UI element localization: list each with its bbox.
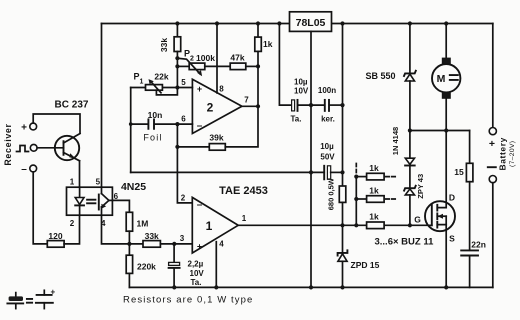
- svg-text:S: S: [449, 234, 455, 244]
- wire: 33k to op-amp1 pin 3: [160, 243, 192, 245]
- svg-text:2,2µ: 2,2µ: [188, 260, 204, 269]
- pin 6 label: [114, 192, 119, 201]
- pin 2 label op-amp1: [181, 194, 186, 203]
- wire: motor bottom row to 15 ohm branch: [410, 130, 470, 132]
- svg-text:TAE 2453: TAE 2453: [219, 185, 268, 197]
- wire: top supply rail right of regulator to battery plus: [332, 23, 493, 25]
- svg-text:(7–20V): (7–20V): [509, 141, 516, 167]
- legend: polarized capacitor symbol right: [36, 288, 56, 309]
- svg-text:22n: 22n: [471, 240, 486, 250]
- wire: junction down to 220k: [128, 244, 130, 255]
- node: gate bus / 1k first junction: [354, 175, 358, 179]
- node: feedback column / 39k junction: [175, 145, 179, 149]
- optocoupler light arrows: [87, 200, 95, 204]
- resistor R13 15: [454, 131, 473, 251]
- op-amp U1b (2): [192, 79, 242, 133]
- node: ground rail / 2.2u junction: [172, 285, 176, 289]
- resistor R11 1k gate second: [356, 185, 395, 202]
- svg-text:–: –: [21, 164, 27, 175]
- wire: motor to MOSFET drain: [437, 131, 446, 208]
- op-amp U1a (1) TAE 2453: [192, 185, 268, 253]
- terminal: battery plus: [489, 128, 496, 150]
- svg-text:SB 550: SB 550: [366, 71, 396, 81]
- wire: 1M bottom to junction: [128, 231, 130, 244]
- capacitor C6 22n: [461, 240, 486, 288]
- svg-text:1k: 1k: [369, 163, 379, 173]
- resistor R4 33k horizontal: [143, 231, 160, 247]
- resistor R8 1k vertical: [255, 24, 273, 52]
- terminal: receiver pulse input: [17, 144, 38, 151]
- wire: P1 left column down to foil row: [130, 88, 132, 173]
- pin label D: [449, 193, 455, 203]
- svg-text:Battery: Battery: [498, 137, 508, 171]
- svg-text:2: 2: [181, 194, 186, 203]
- svg-text:2: 2: [207, 100, 214, 114]
- svg-text:7: 7: [244, 96, 249, 105]
- svg-text:ZPD 15: ZPD 15: [351, 260, 380, 270]
- optocoupler U3 4N25 body: [67, 187, 113, 215]
- svg-text:1k: 1k: [369, 212, 379, 222]
- motor M1: [432, 24, 460, 131]
- wire: battery minus down to ground rail: [492, 183, 494, 288]
- svg-text:+: +: [51, 288, 56, 297]
- note: resistor wattage: [123, 295, 253, 306]
- wire: 10n to op-amp2 pin 6: [155, 123, 193, 125]
- wire: battery plus column from rail down: [342, 24, 344, 173]
- resistor R2 1M: [126, 212, 148, 231]
- pin 5 label: [96, 178, 101, 187]
- wire: pulse terminal to transistor base: [37, 147, 63, 149]
- svg-text:8: 8: [219, 85, 224, 94]
- pin 4 label op-amp1: [219, 240, 224, 249]
- node: SB550 / motor-bottom wire junction: [408, 128, 412, 132]
- potentiometer P2 100k: [177, 49, 215, 77]
- node: motor / bottom row junction: [444, 128, 448, 132]
- resistor R6 33k vertical: [159, 24, 181, 53]
- wire: 120 resistor to optocoupler pin 2: [64, 215, 79, 244]
- svg-text:10V: 10V: [294, 87, 309, 96]
- node: ground rail / source junction: [444, 285, 448, 289]
- wire: regulator ground pin down to ground rail: [310, 31, 312, 287]
- svg-text:2: 2: [190, 56, 194, 63]
- svg-text:10µ: 10µ: [294, 78, 308, 87]
- svg-text:–: –: [197, 200, 203, 211]
- legend: equivalence sign: [27, 299, 32, 303]
- svg-text:680 0,5W: 680 0,5W: [327, 177, 336, 210]
- svg-text:5: 5: [96, 178, 101, 187]
- node: wiper link junction: [175, 56, 179, 60]
- node: 47k / 1k junction: [256, 64, 260, 68]
- pin 1 label: [70, 178, 75, 187]
- wire: 1k down to output node: [257, 51, 259, 106]
- wire: feedback column pin6 to 39k and op-amp1 pin2: [177, 124, 192, 203]
- legend: electrolytic capacitor symbol left: [7, 293, 23, 309]
- wire: P2 to 47k: [205, 65, 230, 67]
- svg-text:Ta.: Ta.: [291, 115, 302, 124]
- svg-text:1: 1: [206, 219, 213, 233]
- svg-text:1: 1: [242, 214, 247, 223]
- wire: op-amp1 output to gate resistor: [238, 224, 366, 226]
- terminal: receiver plus: [21, 122, 37, 133]
- node: ground rail / regulator ground junction: [309, 285, 313, 289]
- node: output / feedback junction: [256, 104, 260, 108]
- svg-text:3...6× BUZ 11: 3...6× BUZ 11: [375, 237, 435, 248]
- node: 680 / gate wire junction: [340, 223, 344, 227]
- svg-text:39k: 39k: [209, 132, 223, 142]
- node: rail / 100n junction: [340, 21, 344, 25]
- potentiometer P1 22k: [131, 72, 178, 95]
- pin 5 label op-amp2: [181, 78, 186, 87]
- wire: gate bus dashed continuation: [355, 164, 357, 173]
- resistor R10 1k gate first: [356, 163, 395, 180]
- svg-text:G: G: [414, 215, 421, 225]
- svg-text:1: 1: [70, 178, 75, 187]
- node: pin6 / feedback column junction: [175, 122, 179, 126]
- wire: op-amp2 output pin 7: [242, 105, 258, 107]
- pin 3 label: [180, 234, 185, 243]
- optocoupler LED: [75, 187, 84, 215]
- capacitor C1 2.2u tantalum: [169, 244, 205, 288]
- terminal: receiver minus: [21, 164, 36, 175]
- svg-text:M: M: [437, 73, 446, 85]
- node: P2 row junction: [175, 64, 179, 68]
- MOSFET Q2 BUZ11: [425, 201, 455, 231]
- wire: optocoupler pin 6 to 1M resistor: [112, 200, 129, 212]
- wire: op-amp1 pin 4 to ground rail: [215, 242, 217, 288]
- svg-text:+: +: [197, 241, 202, 251]
- resistor R7 47k: [230, 53, 246, 70]
- svg-text:BC 237: BC 237: [55, 100, 89, 111]
- pin label G: [414, 215, 421, 225]
- svg-text:10V: 10V: [190, 269, 205, 278]
- voltage regulator U2 78L05: [290, 12, 332, 32]
- capacitor C5 10u 50V electrolytic: [320, 142, 342, 179]
- node: battery column / foil row / 680 junction: [340, 170, 344, 174]
- svg-text:100n: 100n: [318, 86, 336, 95]
- svg-text:Resistors are 0,1 W type: Resistors are 0,1 W type: [123, 295, 253, 306]
- node: cap row / ground column junction: [309, 103, 313, 107]
- svg-text:Ta.: Ta.: [191, 278, 202, 287]
- wire: MOSFET source to ground rail: [445, 225, 447, 288]
- svg-text:15: 15: [454, 167, 464, 177]
- resistor R3 220k: [126, 255, 156, 273]
- svg-text:+: +: [197, 84, 202, 94]
- node: pin3 / 2.2u junction: [172, 242, 176, 246]
- wire: top supply rail left of regulator: [102, 23, 290, 25]
- svg-text:50V: 50V: [320, 153, 335, 162]
- node: foil row / ground column junction: [309, 170, 313, 174]
- label: 4N25: [121, 181, 146, 193]
- wire: rail corner down to battery plus terminal: [492, 24, 494, 128]
- node: gate bus / gate wire junction: [354, 223, 358, 227]
- capacitor C4 100n ceramic: [318, 86, 343, 124]
- svg-text:100k: 100k: [196, 53, 215, 63]
- optocoupler phototransistor: [99, 187, 113, 215]
- svg-text:2: 2: [70, 219, 75, 228]
- wire: gate resistor to MOSFET gate: [384, 224, 432, 226]
- node: rail / motor junction: [444, 21, 448, 25]
- resistor R9 680 0.5W: [327, 172, 346, 225]
- svg-text:22k: 22k: [154, 72, 168, 82]
- wire: 220k bottom to ground rail: [128, 273, 130, 287]
- capacitor C2 10n foil: [131, 110, 163, 143]
- node: pin5 / P2 column junction: [175, 85, 179, 89]
- svg-text:+: +: [489, 138, 495, 150]
- pin 7 label: [244, 96, 249, 105]
- svg-text:ZPY 43: ZPY 43: [416, 174, 425, 199]
- svg-text:1: 1: [140, 79, 144, 86]
- node: gate wire / zener column junction: [408, 223, 412, 227]
- svg-text:3: 3: [180, 234, 185, 243]
- wire: plus terminal to transistor collector: [33, 114, 80, 133]
- node: rail / decoupling drop junction: [277, 21, 281, 25]
- wire: ground rail: [129, 286, 492, 288]
- svg-text:1M: 1M: [137, 219, 149, 229]
- svg-text:–: –: [197, 121, 203, 132]
- wire: 39k right lead up to output node: [225, 106, 258, 147]
- resistor R12 1k gate third: [367, 212, 385, 229]
- node: battery column / cap row junction: [340, 103, 344, 107]
- zener diode D4 ZPY43: [404, 174, 425, 225]
- pin 8 label: [219, 85, 224, 94]
- svg-text:4N25: 4N25: [121, 181, 146, 193]
- pin label S: [449, 234, 455, 244]
- wire: optocoupler pin 4 down and right to 33k: [102, 215, 144, 244]
- wire: 5V decoupling drop from rail: [279, 24, 291, 106]
- pin 1 label op-amp1: [242, 214, 247, 223]
- pin 2 label: [70, 219, 75, 228]
- svg-text:ker.: ker.: [321, 115, 335, 124]
- svg-text:Foil: Foil: [143, 132, 162, 142]
- diode D3 1N4148: [391, 127, 415, 188]
- diode D2 SB550 schottky: [366, 24, 416, 131]
- wire: supply rail down to optocoupler pin 5: [101, 24, 103, 188]
- wire: 47k to 1k column: [246, 65, 258, 67]
- svg-text:47k: 47k: [230, 53, 244, 63]
- svg-text:1k: 1k: [263, 39, 273, 49]
- svg-text:1N 4148: 1N 4148: [391, 127, 400, 155]
- resistor 120: [47, 231, 64, 247]
- node: 1M / pin4 wire junction: [127, 242, 131, 246]
- svg-text:33k: 33k: [159, 38, 169, 52]
- node: rail / SB550 junction: [408, 21, 412, 25]
- svg-text:+: +: [21, 122, 27, 133]
- node: rail / 33k junction: [175, 21, 179, 25]
- wire: foil row from P1 column to 10u50V: [131, 171, 325, 173]
- node: rail / 1k junction: [256, 21, 260, 25]
- svg-text:Receiver: Receiver: [3, 123, 13, 165]
- capacitor C3 10u 10V tantalum: [291, 78, 324, 124]
- label: Battery 7-20V: [498, 137, 517, 171]
- svg-text:220k: 220k: [137, 262, 156, 272]
- node: gate bus / 1k second junction: [354, 197, 358, 201]
- svg-text:10n: 10n: [148, 110, 163, 120]
- svg-text:78L05: 78L05: [296, 17, 326, 29]
- pin 4 label: [101, 219, 106, 228]
- wire: gate bus vertical: [355, 176, 357, 226]
- node: rail / op-amp2 pin8 junction: [215, 21, 219, 25]
- node: foil cap tee: [129, 122, 133, 126]
- svg-text:D: D: [449, 193, 455, 203]
- wire: rail to op-amp2 pin 8: [216, 24, 218, 93]
- wire: minus terminal down to 120 resistor: [33, 172, 47, 244]
- wire: 33k down through P2 junctions to pin5 node: [176, 52, 178, 88]
- terminal: battery minus: [488, 167, 497, 183]
- pin 6 label op-amp2: [181, 115, 186, 124]
- svg-text:4: 4: [219, 240, 224, 249]
- svg-text:120: 120: [48, 231, 62, 241]
- transistor Q1 BC237: [55, 100, 89, 161]
- svg-text:10µ: 10µ: [320, 142, 334, 151]
- resistor R5 39k: [209, 132, 225, 150]
- svg-text:33k: 33k: [145, 231, 159, 241]
- svg-text:5: 5: [181, 78, 186, 87]
- node: ground rail / zener junction: [340, 285, 344, 289]
- label: 3...6x BUZ11: [375, 237, 435, 248]
- svg-text:6: 6: [181, 115, 186, 124]
- label: Receiver: [3, 123, 13, 165]
- zener diode D1 ZPD15: [338, 225, 380, 287]
- wire: P1 to op-amp2 pin 5: [162, 87, 192, 89]
- svg-text:1k: 1k: [369, 185, 379, 195]
- wire: 39k left lead: [177, 146, 209, 148]
- node: ground rail / pin4 junction: [214, 285, 218, 289]
- wire: emitter to optocoupler pin 1: [79, 161, 81, 187]
